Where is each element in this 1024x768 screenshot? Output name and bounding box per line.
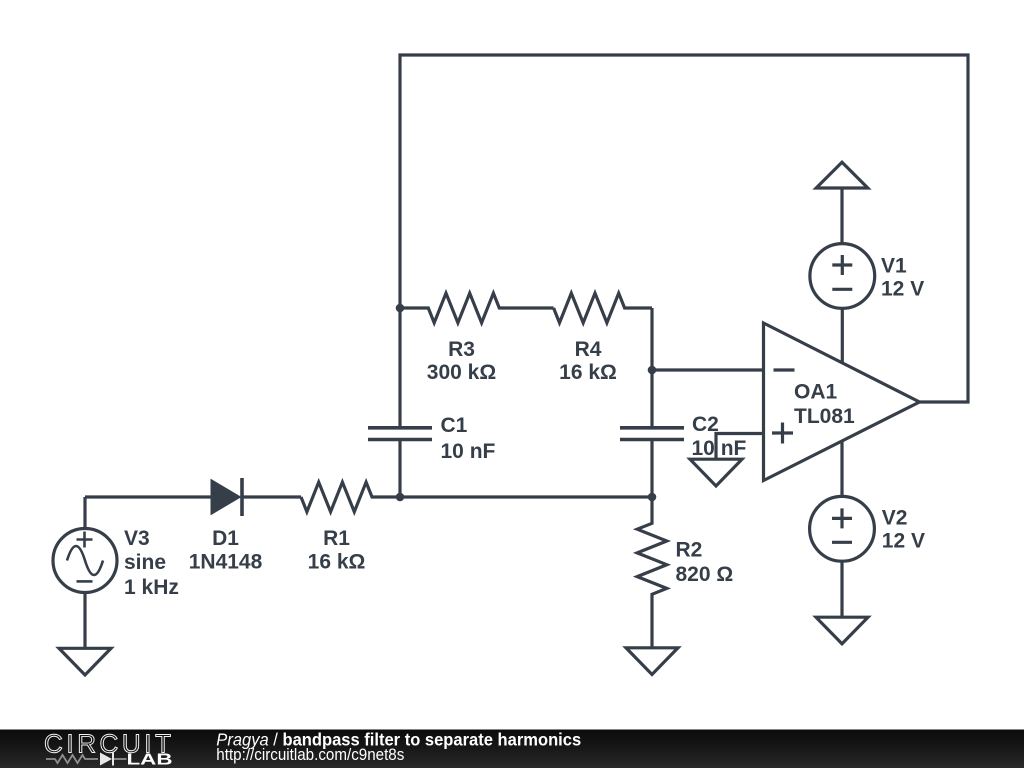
V1 plus sign: [832, 255, 852, 275]
svg-text:V2: V2: [882, 506, 908, 529]
wire inverting input: [652, 368, 764, 371]
wire V1 to op-amp: [841, 308, 844, 362]
svg-text:OA1: OA1: [794, 381, 838, 404]
resistor R4: [554, 293, 652, 323]
url line: [216, 746, 404, 764]
svg-text:12 V: 12 V: [882, 529, 925, 552]
resistor R1: [301, 482, 400, 512]
resistor R2: [637, 497, 667, 648]
wire op-amp to V2: [840, 441, 843, 496]
capacitor C1: [368, 428, 432, 440]
wire V2 to ground: [840, 561, 843, 617]
diode D1: [211, 480, 241, 515]
op-amp minus input symbol: [774, 368, 795, 371]
svg-text:R4: R4: [575, 338, 602, 361]
op-amp OA1 triangle: [764, 323, 920, 481]
ground below V3: [59, 648, 111, 675]
wire diode to R1: [242, 495, 301, 498]
wire R4 down to C2: [650, 308, 653, 427]
ground at noninverting input: [690, 459, 742, 486]
svg-text:1N4148: 1N4148: [189, 551, 263, 574]
svg-text:16 kΩ: 16 kΩ: [559, 361, 617, 384]
voltage source V2 circle: [810, 496, 875, 561]
title line: [216, 730, 581, 750]
node junction dot B: [396, 493, 405, 502]
svg-text:C2: C2: [692, 413, 719, 436]
svg-text:C1: C1: [441, 414, 468, 437]
wire noninverting input to ground: [716, 434, 764, 460]
svg-text:820 Ω: 820 Ω: [676, 563, 734, 586]
svg-text:http://circuitlab.com/c9net8s: http://circuitlab.com/c9net8s: [216, 746, 404, 764]
V2 plus sign: [832, 508, 852, 528]
svg-text:10 nF: 10 nF: [441, 440, 496, 463]
V2 minus sign: [832, 541, 852, 544]
svg-text:1 kHz: 1 kHz: [124, 576, 179, 599]
wire C1 bottom to node: [398, 440, 401, 497]
footer bar: [0, 730, 1024, 768]
ground below V2: [816, 617, 868, 644]
node junction dot C: [648, 366, 657, 375]
svg-text:10 nF: 10 nF: [692, 437, 747, 460]
voltage source V3 circle: [53, 529, 117, 593]
power arrow VCC: [816, 162, 868, 188]
wire left vertical to C1: [398, 308, 401, 427]
capacitor C2: [620, 428, 684, 440]
op-amp plus input symbol: [772, 423, 793, 444]
V3 plus sign: [77, 532, 93, 548]
V1 minus sign: [832, 288, 852, 291]
wire V3 to ground: [83, 593, 86, 649]
logo resistor-diode glyph: [46, 755, 127, 763]
svg-text:V3: V3: [124, 527, 150, 550]
ground below R2: [626, 648, 678, 675]
svg-text:R3: R3: [448, 338, 475, 361]
svg-text:TL081: TL081: [794, 405, 855, 428]
wire V3 to diode: [85, 497, 211, 529]
svg-text:12 V: 12 V: [881, 278, 924, 301]
svg-text:sine: sine: [124, 551, 166, 574]
V3 minus sign: [77, 580, 93, 583]
node junction dot A: [396, 304, 405, 313]
svg-text:300 kΩ: 300 kΩ: [427, 361, 496, 384]
svg-text:V1: V1: [881, 255, 907, 278]
V3 sine wave: [67, 546, 103, 575]
voltage source V1 circle: [810, 244, 875, 309]
diode D1 cathode bar: [240, 478, 244, 516]
wire arrow to V1: [840, 188, 843, 244]
node junction dot D: [648, 493, 657, 502]
svg-text:R1: R1: [323, 527, 350, 550]
svg-text:D1: D1: [212, 527, 239, 550]
resistor R3: [400, 293, 554, 323]
svg-text:LAB: LAB: [127, 752, 173, 768]
wire feedback loop top rail: [400, 55, 968, 402]
svg-text:R2: R2: [676, 539, 703, 562]
svg-text:16 kΩ: 16 kΩ: [308, 551, 366, 574]
wire node to node: [400, 495, 652, 498]
wire C2 bottom to node: [650, 440, 653, 497]
